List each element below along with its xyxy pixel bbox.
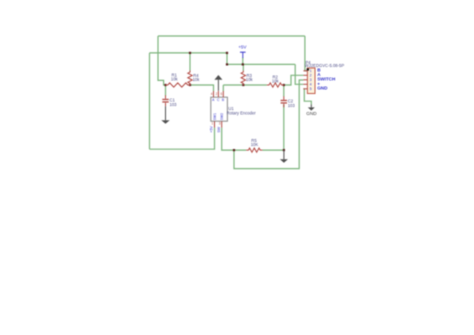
svg-text:4: 4 [310, 83, 312, 87]
svg-text:10k: 10k [272, 79, 280, 84]
svg-text:3: 3 [219, 122, 221, 126]
svg-text:10k: 10k [193, 77, 201, 82]
svg-text:GND: GND [317, 86, 328, 91]
svg-text:WJ2EDGVC-5.08-5P: WJ2EDGVC-5.08-5P [305, 63, 345, 68]
svg-text:SWITCH: SWITCH [317, 77, 336, 82]
svg-text:3: 3 [310, 78, 312, 82]
svg-text:1: 1 [212, 122, 214, 126]
svg-text:2: 2 [216, 92, 218, 96]
svg-text:10K: 10K [251, 142, 259, 147]
svg-text:10k: 10k [246, 77, 254, 82]
svg-text:GND: GND [306, 111, 317, 116]
svg-text:1: 1 [310, 69, 312, 73]
svg-text:103: 103 [170, 102, 178, 107]
svg-text:SW1: SW1 [213, 113, 217, 120]
svg-text:4: 4 [211, 92, 213, 96]
svg-text:SW: SW [217, 126, 221, 132]
svg-text:2: 2 [310, 74, 312, 78]
svg-text:5: 5 [310, 87, 312, 91]
svg-text:+5V: +5V [210, 126, 214, 133]
svg-text:6: 6 [221, 92, 223, 96]
svg-text:+5V: +5V [238, 44, 247, 49]
svg-text:Rotary Encoder: Rotary Encoder [227, 110, 257, 115]
svg-text:10k: 10k [171, 77, 179, 82]
svg-text:SW2: SW2 [220, 113, 224, 120]
svg-text:103: 103 [288, 103, 296, 108]
